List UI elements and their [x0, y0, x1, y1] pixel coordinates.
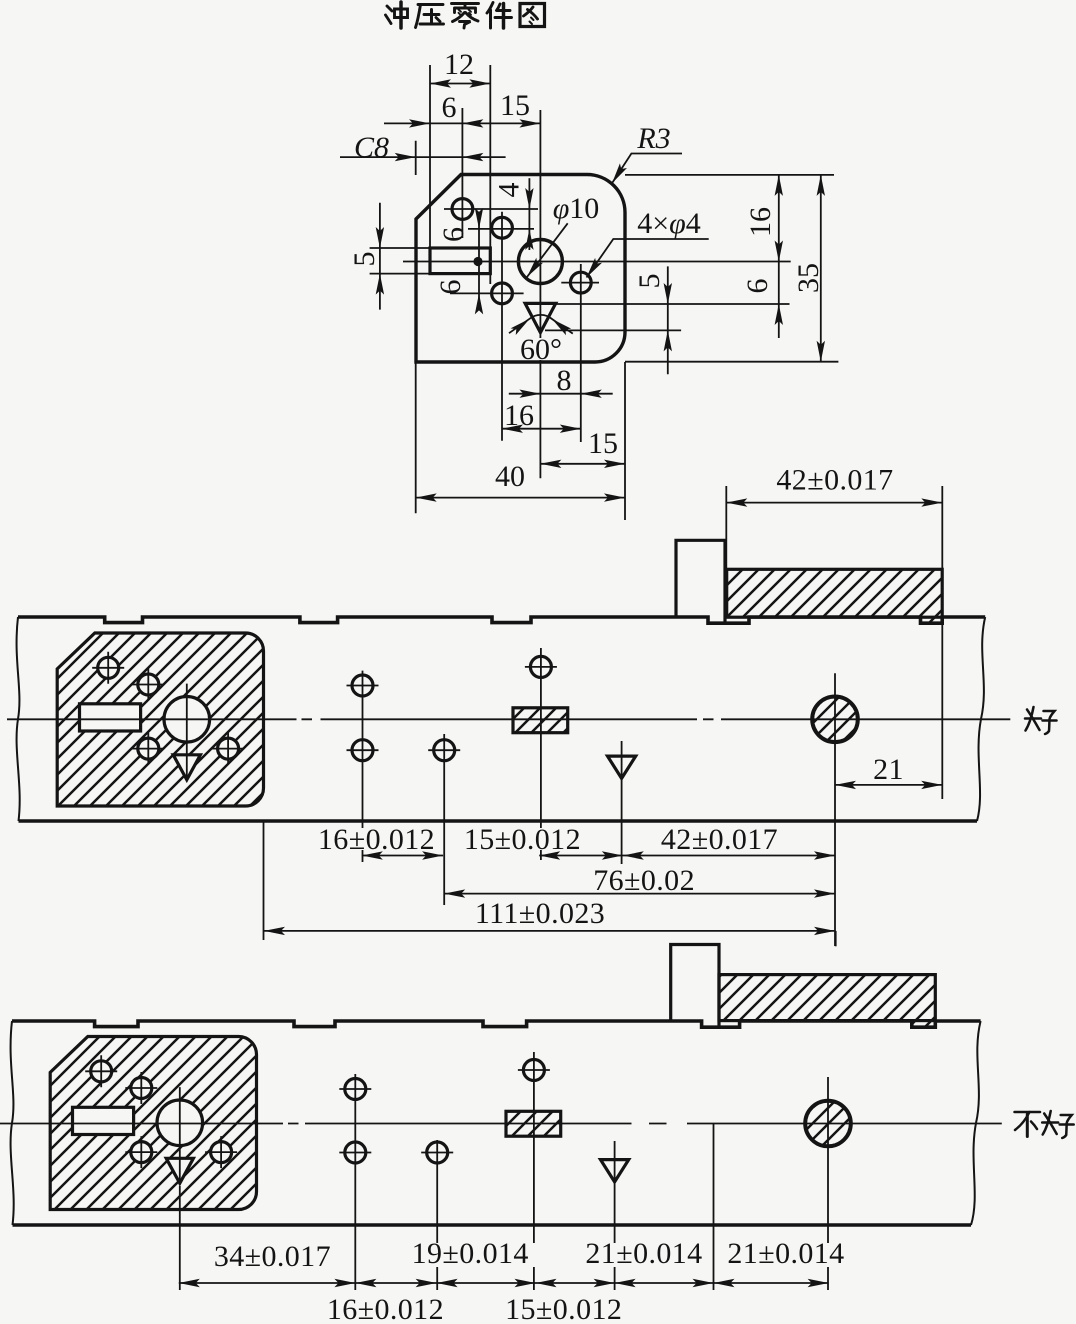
side-edge cutter block (hatched) — [727, 569, 943, 617]
label bu hao (not good) — [1015, 1112, 1041, 1137]
hole D — [570, 272, 591, 293]
crosshair hole B — [468, 212, 534, 441]
ext line y304 — [552, 303, 790, 305]
side-edge punch tab — [671, 945, 719, 1028]
svg-text:6: 6 — [434, 280, 467, 295]
svg-text:40: 40 — [495, 460, 525, 493]
svg-text:15±0.012: 15±0.012 — [464, 823, 581, 856]
cutter lip — [913, 1021, 935, 1027]
svg-text:42±0.017: 42±0.017 — [776, 464, 893, 497]
60 degree arc — [509, 315, 573, 334]
ext line x430 — [429, 65, 431, 248]
punched upper hole — [523, 1060, 544, 1081]
part phi10 hole — [164, 697, 210, 743]
side-edge cutter block (hatched) — [719, 975, 935, 1021]
part hole B — [131, 1078, 152, 1099]
part hole C — [131, 1142, 152, 1163]
punched pair hole lower — [345, 1142, 366, 1163]
strip bottom edge — [13, 1223, 972, 1227]
part V notch — [166, 1158, 193, 1183]
part rectangular hole — [80, 704, 141, 731]
phi10 leader — [527, 223, 568, 277]
part outline — [416, 175, 625, 363]
part hole D — [218, 738, 239, 759]
locating dot — [473, 257, 482, 266]
part rectangular hole — [73, 1107, 134, 1134]
chained dim line — [179, 1282, 829, 1284]
char tu — [520, 4, 545, 27]
part hole D — [211, 1142, 232, 1163]
svg-text:5: 5 — [633, 274, 666, 289]
centerline horizontal — [403, 261, 791, 263]
svg-text:15: 15 — [588, 427, 618, 460]
dim row3: 111 — [264, 930, 835, 932]
text masks — [207, 1243, 852, 1320]
feature column extension lines — [362, 671, 364, 862]
svg-text:5: 5 — [348, 252, 381, 267]
right break line — [971, 1021, 981, 1225]
4xphi4 leader — [587, 239, 709, 278]
punched holes crosshairs — [347, 667, 557, 750]
svg-text:8: 8 — [557, 364, 572, 397]
part hole A — [91, 1061, 112, 1082]
dim 16 bottom — [502, 428, 581, 430]
crosshair hole A — [444, 108, 538, 238]
svg-text:C8: C8 — [354, 131, 389, 164]
dim C8 — [340, 156, 506, 158]
dim 21 — [835, 784, 942, 786]
dim 42 top — [726, 502, 942, 504]
right break line — [977, 617, 985, 821]
dim 4 — [528, 178, 530, 250]
right edge extension — [624, 362, 626, 520]
title 冲压零件图 (hand drawn strokes) — [386, 2, 545, 28]
svg-text:60°: 60° — [520, 333, 562, 366]
part dimension texts — [348, 48, 825, 493]
dim 40 — [416, 497, 625, 499]
char ya — [416, 5, 444, 28]
svg-text:111±0.023: 111±0.023 — [475, 897, 605, 930]
svg-text:R3: R3 — [636, 122, 670, 155]
hole A (4xphi4) — [452, 199, 473, 220]
svg-text:35: 35 — [792, 263, 825, 293]
thin lines — [340, 65, 838, 520]
phi10 column line — [539, 110, 541, 478]
part feature crosshairs — [85, 1055, 237, 1184]
hole C — [492, 283, 513, 304]
part hole B — [138, 674, 159, 695]
top edge extension right — [625, 174, 834, 176]
svg-text:12: 12 — [444, 48, 474, 81]
white mask under 60deg label — [519, 338, 563, 360]
dim 12 — [430, 83, 490, 85]
svg-text:16±0.012: 16±0.012 — [318, 823, 435, 856]
part hole C — [138, 738, 159, 759]
svg-text:21±0.014: 21±0.014 — [585, 1237, 702, 1270]
R3 leader — [612, 154, 682, 184]
hole B — [492, 217, 513, 238]
label hao (good) — [1025, 707, 1057, 734]
strip top edge with notches — [12, 1021, 981, 1027]
punched pilot hole (hatched) — [805, 1101, 851, 1147]
svg-text:21±0.014: 21±0.014 — [727, 1237, 844, 1270]
punched upper hole — [530, 656, 551, 677]
svg-text:4×φ4: 4×φ4 — [637, 207, 701, 240]
svg-text:6: 6 — [437, 227, 470, 242]
ext line x490 — [489, 65, 491, 284]
svg-text:φ10: φ10 — [553, 192, 600, 225]
char chong — [386, 2, 408, 28]
V notch triangle — [525, 303, 556, 332]
dim 6/15 top — [384, 122, 540, 124]
punched pair hole upper — [352, 675, 373, 696]
svg-text:16: 16 — [744, 207, 777, 237]
bottom edge extension right — [625, 361, 838, 363]
stamped part blank (hatched) — [57, 633, 263, 806]
svg-text:16±0.012: 16±0.012 — [327, 1293, 444, 1324]
punched rectangle (slug hatched) — [513, 708, 568, 733]
svg-text:4: 4 — [493, 183, 526, 198]
part feature crosshairs — [92, 652, 244, 781]
punched V notch — [608, 756, 636, 778]
strip centerline — [7, 486, 1010, 946]
svg-text:15: 15 — [500, 89, 530, 122]
svg-text:16: 16 — [504, 399, 534, 432]
dim 15 bottom — [540, 463, 625, 465]
left break line — [17, 617, 20, 821]
punched single hole — [427, 1142, 448, 1163]
left break line — [11, 1021, 14, 1225]
side-edge punch tab — [676, 540, 725, 623]
dim row2: 76 — [444, 893, 835, 895]
crosshair hole D — [561, 264, 599, 442]
stamped part blank (hatched) — [50, 1037, 256, 1210]
svg-text:76±0.02: 76±0.02 — [593, 864, 695, 897]
part hole A — [98, 657, 119, 678]
svg-text:21: 21 — [873, 753, 904, 786]
dim 5 right — [667, 266, 669, 374]
punched single hole — [434, 740, 455, 761]
char jian — [487, 3, 512, 29]
svg-text:6: 6 — [741, 279, 774, 294]
dim row1: 16 / 15 / 42 — [362, 855, 835, 857]
dim 35 — [820, 175, 822, 362]
dot crosshair — [478, 214, 480, 308]
svg-text:42±0.017: 42±0.017 — [661, 823, 778, 856]
feature column extension lines — [179, 1186, 181, 1290]
crosshair hole C — [450, 292, 524, 294]
char ling — [452, 4, 479, 29]
dim 8 — [509, 393, 613, 395]
punched pilot hole (hatched) — [812, 697, 858, 743]
arrowheads — [376, 79, 825, 502]
strip top edge with notches — [18, 617, 985, 623]
ext line y330 — [545, 329, 681, 331]
dim 5 left — [370, 203, 430, 310]
dim 16/6 right — [778, 175, 780, 338]
phi10 hole — [518, 240, 562, 284]
rectangular notch — [430, 248, 490, 274]
part phi10 hole — [157, 1100, 203, 1146]
text masks — [312, 828, 785, 925]
strip bottom edge — [19, 819, 978, 823]
left edge extension — [415, 141, 417, 514]
punched pair hole upper — [345, 1079, 366, 1100]
punched holes crosshairs — [339, 1070, 550, 1153]
punched pair hole lower — [352, 740, 373, 761]
svg-text:34±0.017: 34±0.017 — [214, 1240, 331, 1273]
part V notch — [173, 755, 200, 780]
punched V notch — [601, 1160, 629, 1182]
strip centerline — [0, 1052, 1002, 1290]
svg-text:6: 6 — [442, 91, 457, 124]
svg-text:15±0.012: 15±0.012 — [505, 1293, 622, 1324]
punched rectangle (slug hatched) — [506, 1111, 561, 1136]
svg-text:19±0.014: 19±0.014 — [412, 1237, 529, 1270]
cutter lip — [922, 618, 942, 623]
